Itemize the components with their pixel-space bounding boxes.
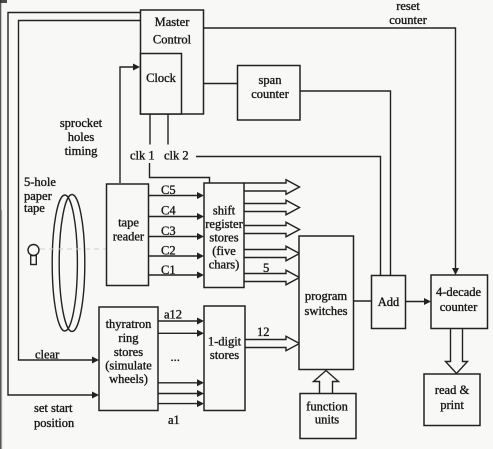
svg-text:Master: Master [155,15,191,29]
svg-text:set start: set start [34,401,73,415]
svg-text:clk 1: clk 1 [130,149,155,163]
svg-text:1-digit: 1-digit [208,335,242,349]
svg-text:read &: read & [435,383,470,397]
svg-text:timing: timing [65,144,98,158]
svg-text:C2: C2 [161,244,176,258]
svg-text:4-decade: 4-decade [436,285,482,299]
svg-text:chars): chars) [209,258,240,272]
svg-text:C5: C5 [161,183,176,197]
svg-text:...: ... [171,350,180,364]
svg-text:thyratron: thyratron [106,317,153,331]
svg-text:5: 5 [263,261,269,275]
svg-text:a12: a12 [164,308,182,322]
svg-text:switches: switches [304,304,347,318]
svg-text:Control: Control [153,33,192,47]
svg-text:clk 2: clk 2 [164,149,189,163]
svg-text:reader: reader [113,230,145,244]
svg-text:tape: tape [118,216,139,230]
svg-text:Add: Add [378,295,400,309]
svg-text:(five: (five [212,244,236,258]
svg-text:tape: tape [24,201,45,215]
svg-text:span: span [259,73,283,87]
svg-text:clear: clear [35,348,60,362]
svg-text:counter: counter [440,300,478,314]
svg-text:program: program [305,289,348,303]
svg-text:stores: stores [209,231,238,245]
svg-text:counter: counter [389,13,427,27]
svg-text:a1: a1 [168,413,180,427]
svg-text:C3: C3 [161,224,176,238]
svg-text:reset: reset [396,0,420,13]
svg-text:register: register [205,217,243,231]
svg-text:function: function [306,400,348,414]
svg-text:stores: stores [114,345,143,359]
svg-text:print: print [440,398,464,412]
svg-text:ring: ring [118,331,139,345]
svg-text:position: position [34,416,75,430]
svg-text:stores: stores [210,348,239,362]
svg-text:counter: counter [251,87,289,101]
svg-text:holes: holes [68,130,95,144]
svg-text:5-hole: 5-hole [24,175,56,189]
svg-text:(simulate: (simulate [105,359,152,373]
svg-text:units: units [315,413,339,427]
svg-text:wheels): wheels) [109,372,148,386]
svg-text:C1: C1 [161,263,176,277]
svg-text:sprocket: sprocket [60,116,103,130]
svg-text:Clock: Clock [146,71,177,85]
svg-text:shift: shift [213,204,236,218]
svg-text:C4: C4 [161,204,176,218]
svg-text:12: 12 [257,325,270,339]
